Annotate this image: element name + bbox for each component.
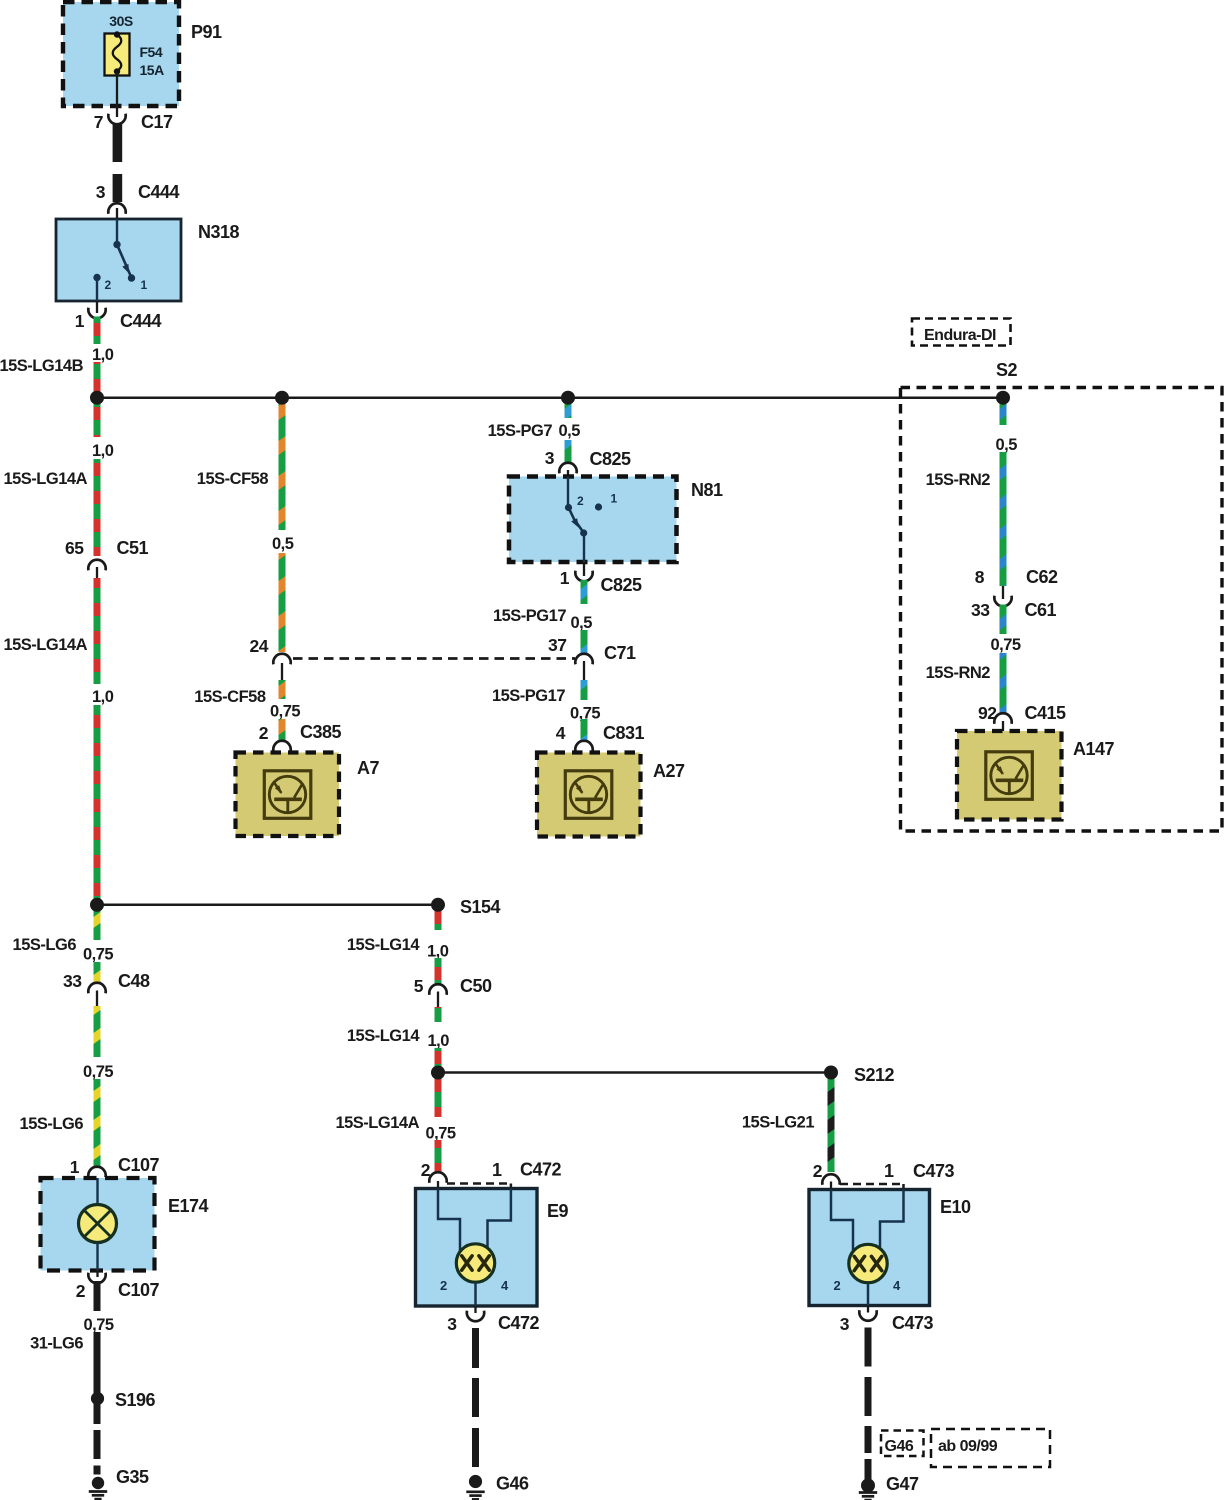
svg-text:0,5: 0,5	[272, 535, 294, 553]
svg-text:15S-CF58: 15S-CF58	[197, 470, 269, 488]
svg-text:15S-LG6: 15S-LG6	[13, 936, 77, 954]
svg-text:P91: P91	[191, 22, 222, 42]
control unit A147	[957, 731, 1062, 820]
svg-text:G46: G46	[496, 1474, 529, 1494]
svg-text:5: 5	[414, 976, 424, 996]
switch N318	[56, 219, 181, 301]
svg-text:1: 1	[611, 492, 618, 506]
svg-text:24: 24	[250, 636, 269, 656]
svg-text:0,5: 0,5	[571, 614, 593, 632]
svg-text:C831: C831	[603, 723, 645, 743]
wire from fuse to pin 7	[116, 72, 118, 118]
svg-text:N81: N81	[691, 480, 723, 500]
svg-text:37: 37	[548, 635, 566, 655]
svg-text:C107: C107	[118, 1280, 160, 1300]
wire 15S-PG17 upper	[581, 580, 588, 604]
svg-text:C415: C415	[1025, 703, 1067, 723]
svg-text:2: 2	[577, 494, 584, 508]
svg-text:3: 3	[96, 182, 106, 202]
connector C444 pin 1	[96, 301, 98, 313]
wire 15S-CF58 upper	[279, 397, 286, 530]
connector C825 pin 1	[583, 562, 585, 576]
wire 15S-RN2 upper	[1000, 397, 1007, 425]
svg-text:15S-PG7: 15S-PG7	[488, 422, 553, 440]
dashed ground wire from E10	[865, 1328, 872, 1367]
svg-text:C50: C50	[460, 976, 492, 996]
junction node above E9	[431, 1066, 445, 1080]
wire 15S-LG14A lower	[94, 578, 101, 684]
junction node S2	[996, 391, 1010, 405]
svg-text:C51: C51	[117, 538, 149, 558]
svg-text:1,0: 1,0	[427, 943, 449, 961]
bus wire to S154	[97, 904, 438, 907]
actuator A7	[236, 753, 340, 837]
svg-text:0,75: 0,75	[270, 703, 300, 721]
wire 15S-LG14 lower	[435, 1007, 442, 1022]
junction S196 dot	[91, 1392, 104, 1405]
junction node on bus left	[90, 391, 104, 405]
wire 15S-RN2 lower	[1000, 605, 1007, 635]
svg-text:15S-PG17: 15S-PG17	[492, 687, 565, 705]
svg-text:0,75: 0,75	[84, 1316, 114, 1334]
svg-text:A27: A27	[653, 761, 685, 781]
svg-text:G47: G47	[886, 1474, 919, 1494]
label box Endura-DI	[912, 319, 1011, 346]
ground G47 dot	[861, 1479, 875, 1493]
svg-text:S154: S154	[460, 897, 501, 917]
svg-text:2: 2	[105, 278, 112, 292]
svg-text:C107: C107	[118, 1155, 160, 1175]
wire 15S-LG6 upper	[94, 904, 101, 940]
bus wire to S212	[438, 1071, 831, 1074]
svg-text:A147: A147	[1073, 739, 1115, 759]
junction node CF58 tap	[275, 391, 289, 405]
fuse F54 15A	[105, 34, 130, 76]
svg-text:G35: G35	[116, 1467, 149, 1487]
svg-text:15S-LG14: 15S-LG14	[347, 1027, 420, 1045]
switch N81	[509, 477, 677, 563]
svg-text:1,0: 1,0	[92, 688, 114, 706]
svg-text:15S-CF58: 15S-CF58	[194, 688, 266, 706]
svg-text:0,5: 0,5	[996, 436, 1018, 454]
svg-text:C48: C48	[118, 971, 150, 991]
wire 15S-LG21	[828, 1072, 835, 1172]
svg-text:15S-LG21: 15S-LG21	[742, 1114, 814, 1132]
svg-text:C61: C61	[1025, 600, 1057, 620]
svg-text:1: 1	[141, 278, 148, 292]
note box ab 09/99	[931, 1429, 1050, 1467]
wire 15S-LG14A upper	[94, 397, 101, 437]
svg-text:S212: S212	[854, 1065, 895, 1085]
svg-text:33: 33	[63, 971, 82, 991]
svg-text:33: 33	[971, 600, 990, 620]
svg-text:15A: 15A	[140, 62, 165, 78]
svg-text:0,75: 0,75	[991, 636, 1021, 654]
svg-text:1: 1	[560, 568, 570, 588]
svg-text:15S-LG14B: 15S-LG14B	[0, 357, 84, 375]
svg-text:2: 2	[440, 1278, 447, 1293]
wire 15S-PG17 lower	[581, 680, 588, 700]
svg-text:3: 3	[447, 1314, 457, 1334]
connector C472 pin 3	[474, 1306, 476, 1313]
svg-text:G46: G46	[885, 1438, 914, 1455]
svg-text:E10: E10	[940, 1197, 971, 1217]
svg-text:C472: C472	[520, 1160, 562, 1180]
wire 15S-LG6 lower	[94, 1006, 101, 1057]
junction node PG7 tap	[561, 391, 575, 405]
svg-text:1: 1	[70, 1157, 80, 1177]
svg-text:0,75: 0,75	[426, 1125, 456, 1143]
svg-text:1,0: 1,0	[428, 1032, 450, 1050]
svg-text:1: 1	[884, 1161, 894, 1181]
svg-text:3: 3	[840, 1314, 850, 1334]
svg-text:C472: C472	[498, 1313, 540, 1333]
svg-text:7: 7	[94, 112, 103, 132]
svg-text:1: 1	[75, 311, 85, 331]
wire 31-LG6 black	[94, 1281, 101, 1311]
actuator A27	[537, 753, 641, 837]
svg-text:1,0: 1,0	[92, 346, 114, 364]
switch contact 2	[93, 274, 100, 281]
wire 15S-PG7	[565, 397, 572, 418]
svg-text:C71: C71	[604, 643, 636, 663]
svg-text:2: 2	[813, 1161, 823, 1181]
junction node S212	[824, 1066, 838, 1080]
svg-text:15S-LG14A: 15S-LG14A	[3, 636, 87, 654]
svg-text:15S-PG17: 15S-PG17	[493, 607, 566, 625]
ground label box G46	[881, 1431, 924, 1457]
ground G46 dot	[469, 1475, 482, 1488]
svg-text:N318: N318	[198, 222, 240, 242]
E10 internal conductors	[831, 1190, 853, 1254]
bus wire from node to S2	[97, 396, 1003, 399]
svg-text:C473: C473	[913, 1161, 955, 1181]
thick wire C17 to C444	[113, 124, 123, 163]
N81 contact from pin 3	[567, 477, 569, 508]
svg-text:2: 2	[834, 1278, 841, 1293]
svg-text:0,75: 0,75	[83, 1063, 113, 1081]
svg-text:S2: S2	[996, 360, 1018, 380]
svg-text:4: 4	[556, 723, 566, 743]
svg-text:15S-LG6: 15S-LG6	[20, 1115, 84, 1133]
svg-text:C825: C825	[601, 575, 643, 595]
svg-text:1: 1	[492, 1160, 502, 1180]
svg-text:F54: F54	[140, 44, 163, 60]
svg-text:E174: E174	[168, 1196, 209, 1216]
N81 switch blade with arrow	[569, 508, 584, 533]
lamp E174	[41, 1178, 155, 1271]
junction node left above LG6	[90, 898, 104, 912]
E9 twin filament lamp symbol	[456, 1244, 494, 1282]
connector C107 pin 2	[96, 1271, 98, 1278]
svg-text:C825: C825	[590, 449, 632, 469]
connector C473 pin 3	[867, 1306, 869, 1313]
svg-text:2: 2	[259, 723, 269, 743]
lamp unit E9	[416, 1189, 538, 1307]
connector C61 pin 33	[994, 596, 1011, 607]
svg-text:65: 65	[65, 538, 84, 558]
svg-text:A7: A7	[357, 758, 379, 778]
lamp unit E10	[809, 1190, 930, 1306]
N81 contact 1	[595, 503, 602, 510]
svg-text:15S-LG14A: 15S-LG14A	[3, 470, 87, 488]
E9 internal conductors	[438, 1189, 460, 1253]
svg-text:C62: C62	[1026, 567, 1058, 587]
svg-text:3: 3	[545, 448, 555, 468]
wire 15S-LG14A to E9	[435, 1072, 442, 1117]
svg-text:Endura-DI: Endura-DI	[924, 327, 996, 344]
svg-text:2: 2	[76, 1281, 86, 1301]
ground G35 dot	[92, 1477, 104, 1489]
junction node S154	[431, 898, 445, 912]
dashed option line to C71	[293, 657, 575, 660]
wire 15S-LG14B	[94, 317, 101, 345]
fuse box P91	[63, 2, 179, 106]
lamp symbol	[79, 1205, 117, 1243]
svg-text:C444: C444	[120, 311, 162, 331]
svg-text:15S-RN2: 15S-RN2	[926, 471, 991, 489]
wire 15S-CF58 lower	[279, 680, 286, 699]
svg-text:E9: E9	[547, 1201, 569, 1221]
svg-text:8: 8	[975, 567, 985, 587]
svg-text:C17: C17	[141, 112, 173, 132]
svg-text:C385: C385	[300, 722, 342, 742]
wire 15S-LG14 upper	[435, 904, 442, 930]
svg-text:0,5: 0,5	[559, 422, 581, 440]
switch contact from pin 3	[116, 219, 118, 245]
connector C17 pin 7	[108, 114, 125, 125]
svg-text:0,75: 0,75	[83, 946, 113, 964]
svg-text:S196: S196	[115, 1390, 156, 1410]
svg-text:15S-LG14: 15S-LG14	[347, 936, 420, 954]
E10 twin filament lamp symbol	[849, 1244, 887, 1282]
svg-text:15S-RN2: 15S-RN2	[926, 664, 991, 682]
switch contact 1	[128, 274, 135, 281]
Endura-DI dashed boundary box	[901, 388, 1223, 832]
svg-text:ab 09/99: ab 09/99	[938, 1438, 998, 1455]
svg-text:C473: C473	[892, 1313, 934, 1333]
svg-text:15S-LG14A: 15S-LG14A	[335, 1114, 419, 1132]
svg-text:31-LG6: 31-LG6	[30, 1335, 83, 1353]
switch blade with arrow	[117, 245, 131, 276]
dashed ground wire from E9	[472, 1328, 479, 1368]
svg-text:30S: 30S	[109, 13, 133, 29]
svg-text:1,0: 1,0	[92, 442, 114, 460]
svg-text:C444: C444	[138, 182, 180, 202]
